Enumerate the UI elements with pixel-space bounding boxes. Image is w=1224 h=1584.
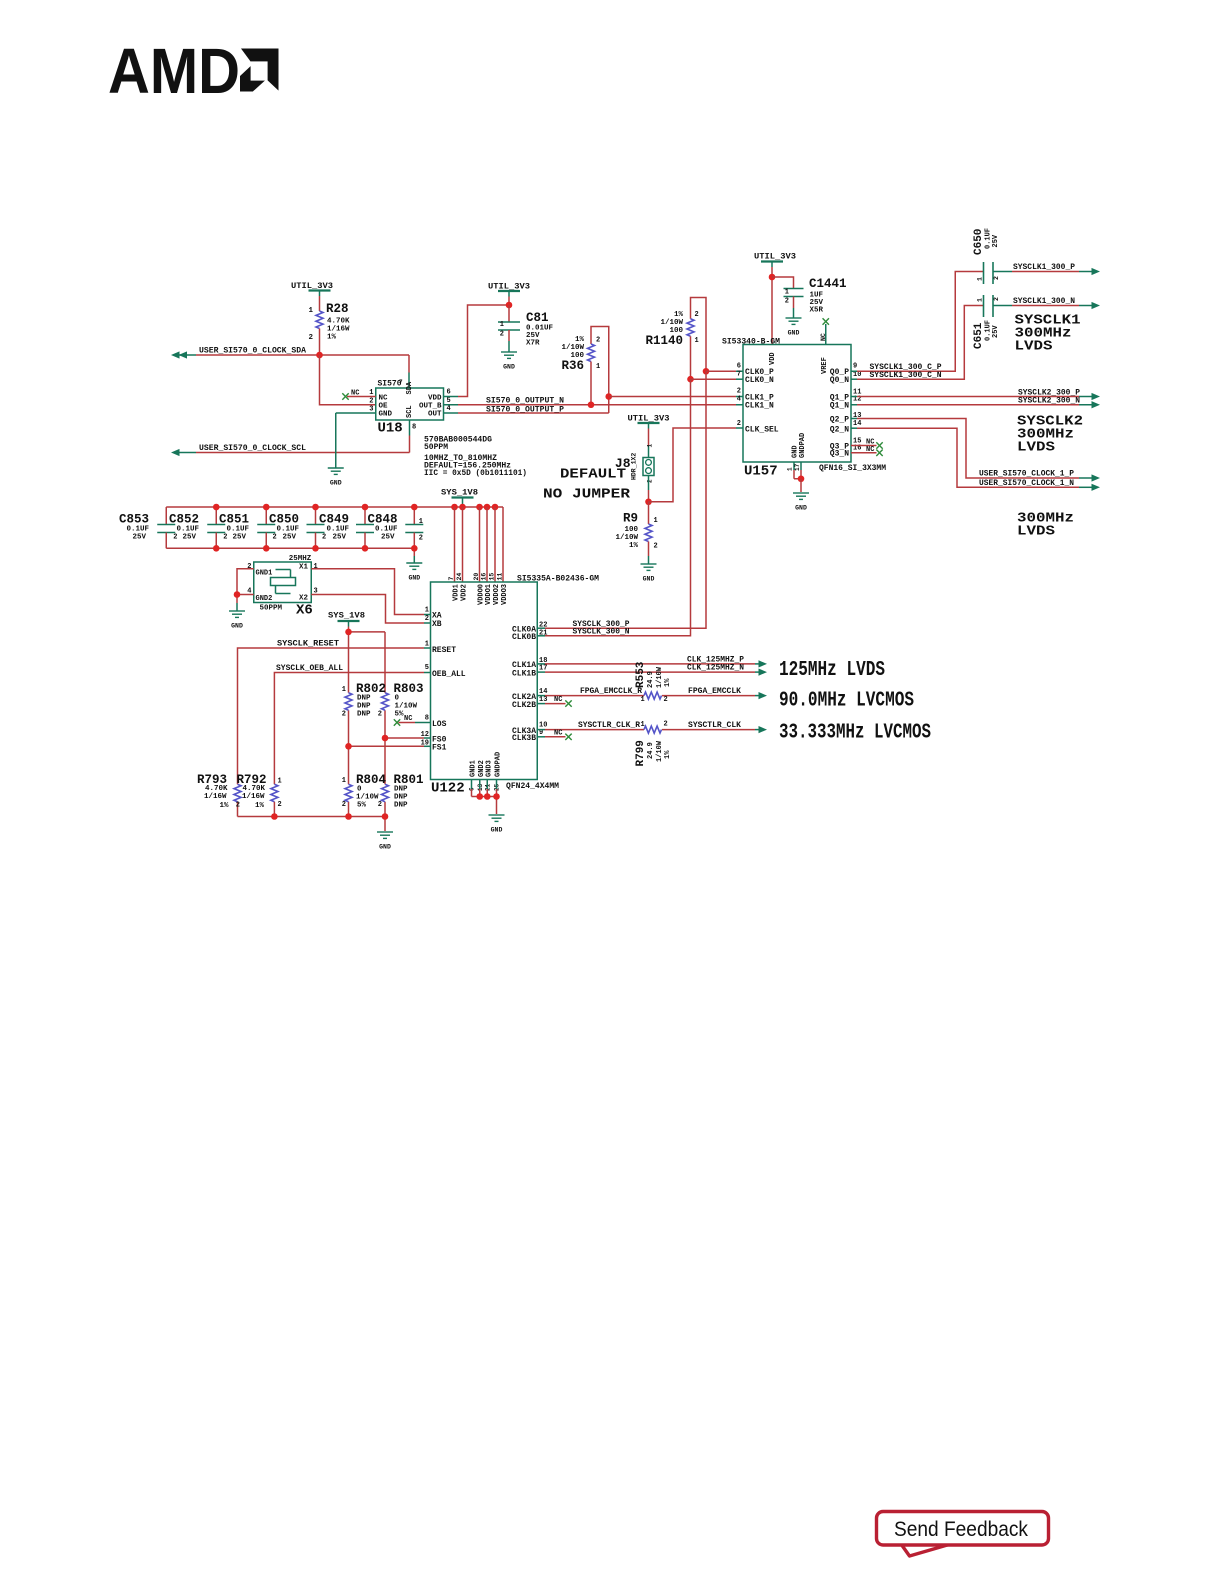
svg-text:R9: R9	[623, 512, 638, 526]
resistor R793	[197, 773, 241, 817]
svg-text:1: 1	[596, 363, 600, 371]
svg-text:5%: 5%	[395, 711, 405, 719]
svg-text:SYSCLK_300_N: SYSCLK_300_N	[573, 628, 630, 637]
svg-text:Q2_N: Q2_N	[830, 426, 849, 435]
svg-text:GND: GND	[643, 576, 655, 583]
svg-text:GND: GND	[379, 411, 393, 419]
svg-text:5: 5	[447, 397, 451, 405]
wire X6 pin1 to U122 XA	[311, 569, 430, 615]
U122 GND pins to ground	[472, 780, 497, 815]
svg-text:2: 2	[378, 711, 382, 719]
capacitor C853	[119, 507, 175, 548]
svg-text:1: 1	[425, 607, 429, 615]
svg-text:15: 15	[489, 573, 496, 581]
svg-text:22: 22	[539, 622, 547, 630]
svg-text:U18: U18	[378, 421, 403, 437]
svg-text:C651: C651	[973, 322, 985, 349]
AMD logo text	[108, 35, 240, 107]
svg-text:FPGA_EMCCLK: FPGA_EMCCLK	[688, 687, 741, 696]
svg-text:2: 2	[785, 298, 789, 306]
wire FS1	[349, 745, 431, 747]
svg-text:1/10W: 1/10W	[395, 703, 418, 711]
wire SYSCLK_300_P vertical (to U122 CLK0A)	[537, 371, 706, 628]
net label SYSCLK1_300_C_N	[870, 371, 942, 380]
svg-text:1%: 1%	[327, 334, 337, 342]
svg-text:X6: X6	[296, 603, 313, 619]
net label SYSCLK1_300_P	[1013, 263, 1075, 272]
IC U157 SI53340 clock buffer	[722, 338, 886, 480]
svg-text:NO JUMPER: NO JUMPER	[543, 487, 631, 503]
resistor R803	[378, 682, 424, 719]
svg-text:Q1_N: Q1_N	[830, 402, 849, 411]
svg-text:2: 2	[247, 563, 251, 571]
svg-text:4.70K: 4.70K	[205, 785, 228, 793]
svg-text:1: 1	[314, 563, 318, 571]
svg-text:OEB_ALL: OEB_ALL	[432, 670, 466, 679]
svg-text:GND1: GND1	[470, 760, 478, 777]
svg-text:2: 2	[737, 420, 741, 428]
junction (CLK0_P vertical)	[703, 368, 710, 375]
U18 part info text	[424, 436, 527, 479]
svg-text:0.1UF: 0.1UF	[327, 526, 350, 534]
svg-text:1: 1	[977, 298, 984, 302]
svg-text:R36: R36	[561, 359, 584, 373]
resistor R36	[561, 327, 608, 414]
svg-text:RESET: RESET	[432, 646, 456, 655]
svg-text:IIC = 0x5D (0b1011101): IIC = 0x5D (0b1011101)	[424, 469, 527, 478]
U157 GND pins to ground	[787, 462, 802, 479]
svg-text:SYSCLK2_300_N: SYSCLK2_300_N	[1018, 397, 1080, 406]
svg-text:2: 2	[664, 696, 668, 704]
svg-text:1%: 1%	[255, 802, 265, 810]
IC U122 body and pin labels	[421, 573, 600, 797]
power rail UTIL_3V3 (above R28)	[291, 282, 333, 311]
svg-text:14: 14	[853, 420, 861, 428]
svg-text:LVDS: LVDS	[1017, 440, 1055, 456]
svg-text:0.1UF: 0.1UF	[227, 526, 250, 534]
wire bottom bus (caps to GND)	[166, 548, 414, 562]
svg-text:1%: 1%	[664, 750, 672, 759]
svg-text:X1: X1	[299, 564, 309, 572]
net label CLK_125MHZ_P	[687, 655, 744, 664]
svg-text:NC: NC	[379, 394, 389, 402]
svg-text:SYSCLK_RESET: SYSCLK_RESET	[277, 640, 339, 649]
power rail UTIL_3V3 (above J8)	[628, 415, 670, 446]
U18 pin3 GND wire	[336, 413, 376, 468]
svg-text:DNP: DNP	[357, 695, 371, 703]
power rail UTIL_3V3 (above U157)	[754, 253, 796, 345]
svg-text:R553: R553	[635, 661, 647, 688]
svg-text:USER_SI570_0_CLOCK_SDA: USER_SI570_0_CLOCK_SDA	[199, 347, 306, 356]
svg-text:NC: NC	[820, 333, 827, 341]
svg-text:SI53340-B-GM: SI53340-B-GM	[722, 338, 780, 347]
svg-text:VDD1: VDD1	[453, 584, 461, 601]
svg-text:0: 0	[395, 695, 400, 703]
svg-text:1/10W: 1/10W	[660, 319, 683, 327]
resistor R804	[342, 773, 387, 810]
wire SYS_1V8 strap column	[349, 632, 386, 817]
svg-text:GND: GND	[330, 480, 342, 487]
svg-text:8: 8	[425, 715, 429, 723]
svg-text:Q2_P: Q2_P	[830, 416, 849, 425]
svg-text:25V: 25V	[133, 534, 147, 542]
svg-text:C1441: C1441	[809, 277, 847, 291]
svg-text:25V: 25V	[283, 534, 297, 542]
svg-text:OUT: OUT	[428, 411, 442, 419]
svg-text:90.0MHz LVCMOS: 90.0MHz LVCMOS	[779, 690, 914, 713]
svg-text:SYSCLK_OEB_ALL: SYSCLK_OEB_ALL	[276, 664, 343, 673]
svg-text:GNDPAD: GNDPAD	[799, 433, 807, 458]
wire CLK0_N to U157	[691, 378, 744, 380]
power rail SYS_1V8 (above R802/R803)	[328, 612, 365, 632]
svg-text:1%: 1%	[220, 802, 230, 810]
svg-text:2: 2	[993, 297, 1000, 301]
wire U157 GND down	[800, 479, 802, 492]
resistor R792	[236, 773, 282, 817]
label SYSCLK2 300MHz LVDS	[1017, 414, 1083, 456]
svg-text:USER_SI570_CLOCK_1_N: USER_SI570_CLOCK_1_N	[979, 479, 1074, 488]
svg-text:QFN16_SI_3X3MM: QFN16_SI_3X3MM	[819, 464, 886, 473]
svg-text:DNP: DNP	[357, 711, 371, 719]
svg-text:R28: R28	[326, 302, 349, 316]
svg-text:50PPM: 50PPM	[260, 605, 283, 613]
label DEFAULT NO JUMPER	[543, 467, 631, 503]
jumper J8 HDR_1X2	[615, 444, 654, 502]
net label USER_SI570_0_CLOCK_SCL	[199, 444, 306, 453]
wire U18 VDD pin6 to C81 node	[444, 305, 510, 397]
ground (U18 pin3)	[328, 468, 344, 487]
svg-text:1: 1	[419, 518, 423, 526]
svg-text:2: 2	[369, 397, 373, 405]
U122 LOS no-connect	[394, 715, 431, 726]
net label USER_SI570_CLOCK_1_P	[979, 470, 1074, 479]
wire X6 GND pins	[237, 569, 254, 611]
svg-text:DNP: DNP	[357, 703, 371, 711]
junction dots on cap buses	[213, 504, 498, 552]
U122 CLK3B no-connect	[537, 729, 571, 740]
svg-text:1%: 1%	[664, 678, 672, 687]
svg-text:SYS_1V8: SYS_1V8	[328, 612, 365, 621]
ground (U122)	[489, 815, 505, 834]
U157 Q3_N no-connect	[851, 446, 883, 456]
svg-text:24.9: 24.9	[647, 671, 655, 688]
svg-text:6: 6	[447, 389, 451, 397]
wire Q0_N to C651	[851, 306, 984, 380]
svg-text:GND2: GND2	[256, 595, 273, 603]
svg-text:FS1: FS1	[432, 744, 447, 753]
svg-text:0: 0	[357, 786, 362, 794]
svg-text:4.70K: 4.70K	[327, 318, 350, 326]
svg-text:2: 2	[647, 479, 654, 483]
svg-text:GND: GND	[491, 827, 503, 834]
svg-text:1: 1	[342, 777, 346, 785]
net USER_SI570_0_CLOCK_SCL wire and arrow	[171, 420, 410, 456]
capacitor C850	[269, 507, 325, 548]
capacitor C651	[973, 295, 1000, 349]
net CLK_125MHZ_P wire/arrow	[537, 660, 767, 667]
svg-text:2: 2	[664, 721, 668, 729]
ground (C81)	[501, 352, 517, 371]
svg-text:6: 6	[737, 363, 741, 371]
ground (strap rail)	[377, 832, 393, 851]
svg-text:R1140: R1140	[645, 334, 683, 348]
svg-text:2: 2	[223, 534, 227, 542]
svg-text:CLK3B: CLK3B	[512, 734, 536, 743]
IC U18 SI570 oscillator	[369, 379, 450, 437]
svg-text:0.1UF: 0.1UF	[277, 526, 300, 534]
net label CLK_125MHZ_N	[687, 664, 744, 673]
svg-text:1: 1	[977, 277, 984, 281]
svg-text:25V: 25V	[992, 234, 1000, 247]
svg-text:11: 11	[497, 573, 504, 581]
net label SYSCLK1_300_C_P	[870, 363, 942, 372]
ground (U157)	[793, 493, 809, 512]
svg-text:VDD2: VDD2	[461, 584, 469, 601]
junction dots (U122 GND)	[476, 793, 499, 800]
ground (X6)	[229, 611, 245, 630]
junction (R28/SDA)	[316, 352, 323, 359]
junction (C81/UTIL_3V3)	[506, 302, 513, 309]
junction (R1140 bottom / CLK0_N)	[687, 376, 694, 383]
svg-text:1: 1	[342, 686, 346, 694]
svg-text:9: 9	[853, 363, 857, 371]
svg-text:GND: GND	[795, 505, 807, 512]
svg-text:2: 2	[378, 801, 382, 809]
svg-text:7: 7	[448, 577, 455, 581]
svg-text:1: 1	[647, 444, 654, 448]
svg-text:GND1: GND1	[256, 570, 273, 578]
svg-text:1/10W: 1/10W	[656, 740, 664, 762]
junction (SYS_1V8 strap branch)	[345, 629, 352, 636]
wire SYS_1V8 top bus	[166, 506, 503, 508]
net SYSCLK_RESET wire	[238, 648, 431, 784]
resistor R28	[308, 302, 350, 355]
svg-text:1/10W: 1/10W	[656, 666, 664, 688]
wire CLK0_P to U157	[706, 370, 743, 372]
svg-text:1: 1	[695, 337, 699, 345]
svg-text:Q3_N: Q3_N	[830, 450, 849, 459]
junction (R36 right leg / CLK1_P)	[605, 393, 612, 400]
svg-text:125MHz LVDS: 125MHz LVDS	[779, 659, 885, 682]
svg-text:2: 2	[425, 615, 429, 623]
svg-text:5: 5	[425, 664, 429, 672]
capacitor C650	[973, 228, 1000, 284]
ground (R9)	[641, 564, 657, 583]
svg-text:SYSCTLR_CLK: SYSCTLR_CLK	[688, 721, 741, 730]
svg-text:SYSCLK1_300_N: SYSCLK1_300_N	[1013, 297, 1075, 306]
svg-text:1: 1	[641, 721, 645, 729]
svg-text:0.1UF: 0.1UF	[375, 526, 398, 534]
svg-text:SDA: SDA	[406, 381, 414, 394]
svg-text:25V: 25V	[381, 534, 395, 542]
svg-text:GND3: GND3	[485, 760, 493, 777]
junction (U157 GNDPAD)	[798, 475, 805, 482]
wire CLK1_P branch to U157	[609, 396, 743, 398]
svg-text:10: 10	[853, 371, 861, 379]
capacitor C848	[368, 507, 424, 548]
svg-text:LVDS: LVDS	[1015, 339, 1053, 355]
capacitor C1441	[772, 277, 847, 318]
svg-text:1: 1	[641, 696, 645, 704]
svg-text:2: 2	[308, 334, 313, 342]
svg-text:C650: C650	[973, 229, 985, 255]
U18 pin1 NC no-connect	[342, 390, 375, 400]
svg-text:Q0_N: Q0_N	[830, 376, 849, 385]
junction (FS0)	[382, 735, 389, 742]
svg-text:2: 2	[993, 276, 1000, 280]
U122 CLK2B no-connect	[537, 696, 571, 707]
capacitor C851	[219, 507, 275, 548]
svg-text:1/16W: 1/16W	[327, 326, 350, 334]
svg-text:NC: NC	[866, 446, 874, 454]
net label SYSCTLR_CLK_R	[578, 721, 640, 730]
net label USER_SI570_0_CLOCK_SDA	[199, 347, 306, 356]
svg-text:1: 1	[785, 289, 789, 297]
svg-text:4: 4	[737, 396, 741, 404]
svg-text:C850: C850	[269, 513, 299, 527]
ground (C1441)	[786, 318, 802, 337]
wire SYSCLK_300_N vertical (to U122 CLK0B)	[537, 379, 690, 636]
svg-text:7: 7	[399, 379, 403, 386]
svg-text:NC: NC	[554, 696, 562, 704]
svg-text:GND: GND	[408, 575, 420, 582]
svg-text:FPGA_EMCCLK_R: FPGA_EMCCLK_R	[580, 687, 642, 696]
svg-text:20: 20	[473, 573, 480, 581]
svg-text:VDDO3: VDDO3	[501, 584, 509, 605]
svg-text:SI570_0_OUTPUT_P: SI570_0_OUTPUT_P	[486, 405, 564, 414]
svg-text:X7R: X7R	[526, 340, 540, 348]
svg-text:X2: X2	[299, 595, 309, 603]
svg-text:VDDO2: VDDO2	[493, 584, 501, 605]
capacitor C852	[169, 507, 225, 548]
svg-text:USER_SI570_0_CLOCK_SCL: USER_SI570_0_CLOCK_SCL	[199, 444, 306, 453]
svg-text:SYSCTLR_CLK_R: SYSCTLR_CLK_R	[578, 721, 640, 730]
crystal X6 25MHZ	[247, 555, 317, 619]
svg-text:1: 1	[278, 778, 282, 786]
resistor R801	[378, 773, 424, 810]
net SI570_0_OUTPUT_N wire	[444, 404, 744, 406]
power rail SYS_1V8 (above caps bus)	[441, 489, 478, 508]
svg-text:C81: C81	[526, 311, 549, 325]
AMD logo arrow mark	[240, 47, 281, 93]
net label SI570_0_OUTPUT_P	[486, 405, 564, 414]
net USER_SI570_CLOCK_1_P wire/arrow	[851, 419, 1100, 482]
svg-text:4: 4	[447, 405, 451, 413]
svg-text:GND: GND	[231, 623, 243, 630]
svg-text:16: 16	[481, 573, 488, 581]
net label FPGA_EMCCLK	[688, 687, 741, 696]
svg-text:R799: R799	[635, 740, 647, 766]
net SYSCLK_300_P label (CLK0A)	[573, 620, 630, 629]
svg-text:SYS_1V8: SYS_1V8	[441, 489, 478, 498]
svg-text:HDR_1X2: HDR_1X2	[631, 453, 638, 480]
capacitor C849	[319, 507, 374, 548]
svg-text:CLK1_N: CLK1_N	[745, 402, 774, 411]
wire Q0_P to C650	[851, 272, 983, 372]
svg-text:C852: C852	[169, 513, 199, 527]
capacitor C81	[498, 305, 554, 352]
svg-text:2: 2	[500, 331, 504, 339]
svg-text:2: 2	[236, 802, 240, 810]
svg-text:CLK0B: CLK0B	[512, 633, 536, 642]
wire FS0	[385, 737, 431, 739]
svg-text:2: 2	[596, 337, 600, 345]
net label SYSCLK1_300_N	[1013, 297, 1075, 306]
svg-text:1/16W: 1/16W	[204, 793, 227, 801]
wire X6 pin3 to U122 XB	[311, 595, 430, 624]
junction (X6 GND)	[234, 591, 241, 598]
net SI570_0_OUTPUT_P wire	[444, 412, 609, 414]
svg-text:UTIL_3V3: UTIL_3V3	[754, 253, 796, 262]
net USER_SI570_0_CLOCK_SDA wire and arrows	[171, 351, 409, 388]
junction (UTIL_3V3/C1441 branch)	[769, 274, 776, 281]
svg-text:2: 2	[322, 534, 326, 542]
svg-text:8: 8	[412, 424, 416, 432]
svg-text:VDDO1: VDDO1	[485, 584, 493, 605]
svg-text:0.1UF: 0.1UF	[177, 526, 200, 534]
net label SYSCLK_RESET	[277, 640, 339, 649]
junction (J8/R9/CLK_SEL)	[645, 498, 652, 505]
svg-text:33.333MHz LVCMOS: 33.333MHz LVCMOS	[779, 722, 931, 745]
svg-text:U122: U122	[431, 781, 465, 797]
svg-text:NC: NC	[404, 715, 412, 723]
net USER_SI570_CLOCK_1_N wire/arrow	[851, 428, 1100, 491]
svg-text:2: 2	[342, 711, 346, 719]
svg-text:NC: NC	[351, 390, 359, 398]
svg-text:5%: 5%	[357, 802, 367, 810]
svg-text:X5R: X5R	[810, 307, 824, 315]
label 125MHz LVDS	[779, 659, 885, 682]
svg-text:1%: 1%	[575, 336, 585, 344]
svg-text:2: 2	[278, 801, 282, 809]
label 33.333MHz LVCMOS	[779, 722, 931, 745]
wire SDA to U18 OE pin	[320, 355, 376, 405]
net CLK_125MHZ_N wire/arrow	[537, 669, 767, 676]
svg-text:50PPM: 50PPM	[424, 443, 448, 452]
svg-text:XB: XB	[432, 620, 442, 629]
svg-text:2: 2	[654, 543, 658, 551]
resistor R9	[615, 502, 657, 564]
svg-text:VREF: VREF	[821, 357, 829, 374]
svg-text:0.1UF: 0.1UF	[127, 526, 150, 534]
junction dots on strap rail	[271, 813, 388, 820]
svg-text:GND: GND	[379, 844, 391, 851]
svg-text:C853: C853	[119, 513, 149, 527]
net label SYSCLK2_300_N	[1018, 397, 1080, 406]
svg-text:2: 2	[273, 534, 277, 542]
svg-text:SCL: SCL	[406, 405, 414, 418]
ground (caps bus)	[406, 563, 422, 582]
svg-text:SI570_0_OUTPUT_N: SI570_0_OUTPUT_N	[486, 396, 564, 405]
net SYSCLK1_300_N wire/arrow	[993, 302, 1100, 309]
svg-text:2: 2	[342, 801, 346, 809]
wires SYS_1V8 bus to U122 VDD pins	[455, 507, 504, 582]
label 90.0MHz LVCMOS	[779, 690, 914, 713]
svg-text:1%: 1%	[629, 542, 639, 550]
svg-text:2: 2	[737, 388, 741, 396]
svg-text:2: 2	[173, 534, 177, 542]
svg-text:NC: NC	[554, 729, 562, 737]
junction (FS1)	[345, 743, 352, 750]
junction (R36 bottom / OUTPUT_N)	[588, 401, 595, 408]
svg-text:GND: GND	[503, 364, 515, 371]
power rail UTIL_3V3 (above C81)	[488, 283, 530, 306]
svg-text:1: 1	[308, 307, 313, 315]
net SYSCLK_300_N label (CLK0B)	[573, 628, 630, 637]
svg-text:1%: 1%	[674, 311, 684, 319]
svg-text:25V: 25V	[233, 534, 247, 542]
svg-text:4.70K: 4.70K	[243, 785, 266, 793]
